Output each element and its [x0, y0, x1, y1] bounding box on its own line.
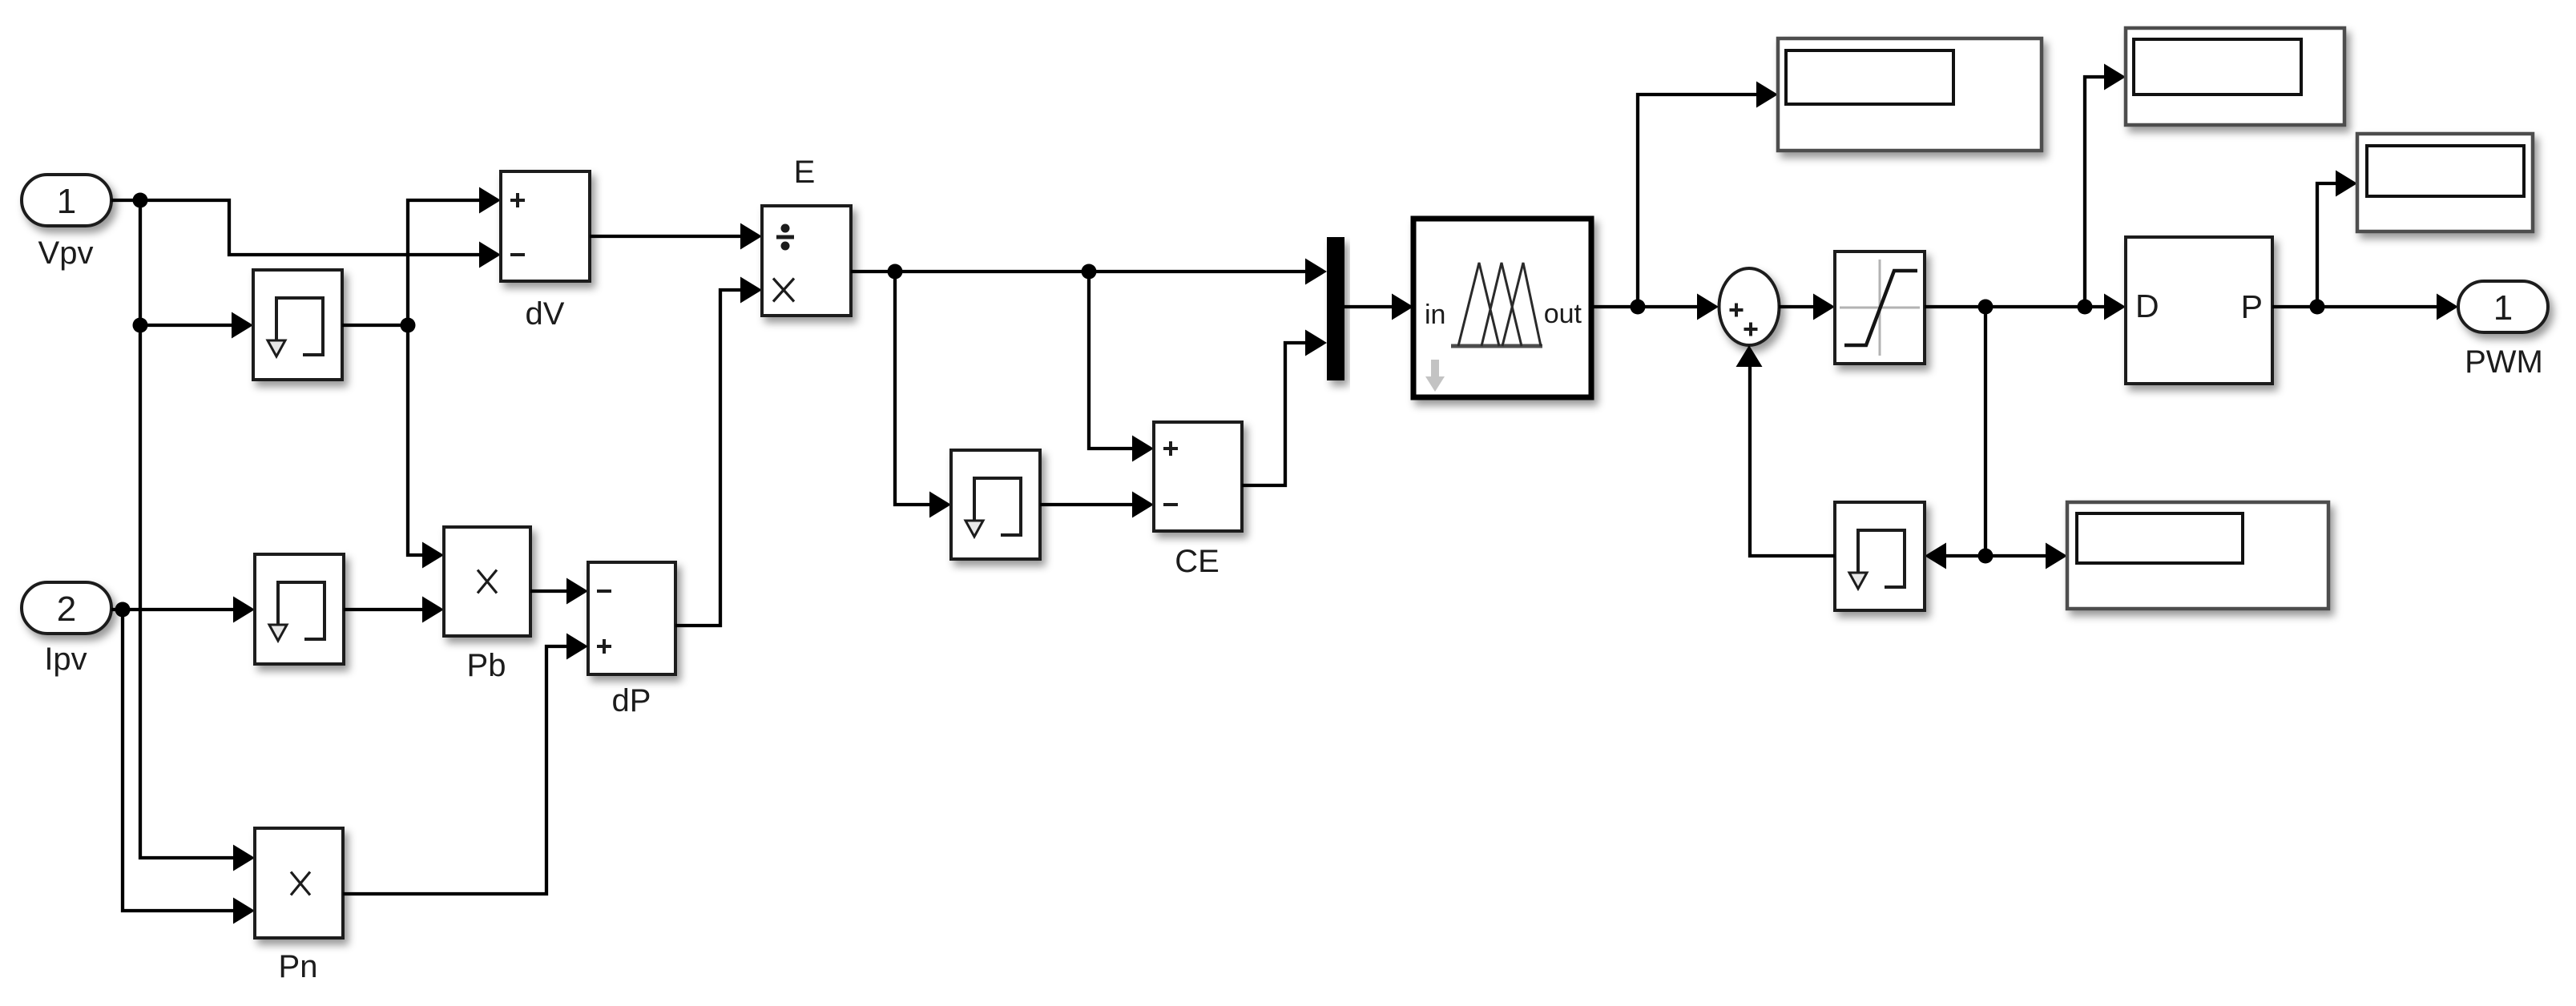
wire: junction G down to feedback row	[1984, 307, 1987, 556]
svg-text:D: D	[2135, 288, 2159, 324]
junction G (duty feedback)	[1978, 300, 1993, 315]
svg-text:Pb: Pb	[467, 648, 506, 683]
label dP	[612, 683, 651, 718]
memory block Memory4 (duty delay)	[1835, 502, 1925, 610]
svg-text:1: 1	[57, 182, 76, 221]
wire: junction C down to Pb input 1	[408, 325, 444, 569]
svg-text:E: E	[794, 155, 816, 190]
junction F (fuzzy output)	[1631, 300, 1646, 315]
svg-text:dV: dV	[526, 296, 565, 332]
junction C (delayed Vpv)	[401, 318, 416, 333]
memory block Memory2 (Ipv delay)	[255, 554, 344, 664]
wire: junction C up to dV plus input	[408, 187, 501, 326]
sum block dP (- +)	[588, 562, 675, 674]
sum block CE (+ -)	[1154, 422, 1242, 531]
wire: Memory2 output to Pb input 2	[344, 597, 444, 623]
inport 1 (Vpv)	[22, 175, 111, 226]
inport 2 (Ipv)	[22, 582, 111, 634]
svg-text:1: 1	[2493, 288, 2513, 328]
junction D on Ipv net	[115, 602, 131, 618]
junction H (feedback row)	[1978, 549, 1993, 564]
product block Pb	[444, 527, 530, 636]
wire: junction F up to Display1	[1638, 82, 1778, 308]
svg-text:CE: CE	[1175, 544, 1219, 579]
memory block Memory3 (E delay)	[951, 450, 1040, 559]
sum block dV (+ -)	[501, 171, 590, 281]
saturation block	[1835, 251, 1925, 364]
outport 1 (PWM)	[2458, 281, 2548, 332]
wire: mux output to fuzzy controller input	[1344, 294, 1413, 320]
wire: feedback to Display4	[1985, 543, 2067, 569]
divide block E	[762, 206, 851, 316]
wire: CE output up to mux input 2	[1242, 330, 1327, 486]
junction A on Vpv net	[133, 193, 148, 208]
svg-text:Ipv: Ipv	[44, 642, 87, 677]
wire: dV output to E dividend input	[590, 223, 762, 250]
wire: saturation output to D input	[1925, 294, 2126, 320]
wire: Ipv vertical down to Pn input 2	[123, 610, 255, 924]
wire: Memory3 output to CE minus input	[1040, 492, 1154, 518]
wire: sum output to saturation input	[1779, 294, 1835, 320]
wire: Vpv vertical trunk down to Pn input 1	[140, 200, 255, 871]
svg-text:Vpv: Vpv	[38, 235, 94, 271]
wire: inport1 to junction A	[111, 199, 141, 202]
display block Display3	[2357, 134, 2533, 231]
svg-text:2: 2	[57, 590, 76, 629]
wire: E output to mux input 1	[851, 259, 1327, 285]
display block Display1	[1778, 38, 2042, 151]
subsystem block D-P (duty to PWM)	[2126, 237, 2272, 384]
label Pb	[467, 648, 506, 683]
memory block Memory1 (Vpv delay)	[253, 270, 342, 380]
wire: fuzzy output to sum junction	[1591, 294, 1719, 320]
wire: inport2 to Memory2 input	[111, 597, 255, 623]
label E	[794, 155, 816, 190]
mux block	[1327, 237, 1344, 380]
junction E1 (error signal)	[888, 264, 903, 280]
wire: Memory1 output to junction C	[342, 324, 408, 327]
wire: Pn output up to dP plus input	[343, 634, 588, 895]
svg-text:P: P	[2241, 288, 2263, 325]
junction J (to Display3)	[2310, 300, 2325, 315]
wire: Pb output to dP minus input	[530, 578, 588, 605]
display block Display4	[2067, 502, 2328, 609]
label PWM	[2465, 344, 2543, 380]
label CE	[1175, 544, 1219, 579]
junction E2 (error to CE plus)	[1082, 264, 1097, 280]
wire: junction E1 down to Memory3 input	[895, 272, 951, 518]
label dV	[526, 296, 565, 332]
label Vpv	[38, 235, 94, 271]
sum circle (+ +)	[1719, 268, 1780, 345]
wire: dP output up to E multiplier input	[675, 277, 762, 626]
fuzzy logic controller block	[1413, 219, 1591, 397]
junction I (to Display2)	[2078, 300, 2093, 315]
wire: Vpv to dV minus input (jog)	[140, 200, 501, 268]
wire: junction I up to Display2	[2085, 64, 2126, 308]
wire: P output to outport PWM	[2272, 294, 2458, 320]
wire: feedback to Memory4 input (leftward)	[1925, 543, 1985, 569]
product block Pn	[255, 828, 343, 938]
svg-text:dP: dP	[612, 683, 651, 718]
svg-text:PWM: PWM	[2465, 344, 2543, 380]
label Ipv	[44, 642, 87, 677]
display block Display2	[2126, 28, 2344, 125]
wire: junction E2 down to CE plus input	[1089, 272, 1154, 462]
label Pn	[279, 949, 318, 984]
svg-text:out: out	[1544, 299, 1582, 329]
wire: junction B to Memory1 input	[140, 312, 253, 339]
svg-text:in: in	[1425, 300, 1445, 330]
wire: junction J up to Display3	[2317, 171, 2357, 308]
wire: Memory4 output up to sum second input	[1736, 345, 1836, 556]
svg-text:Pn: Pn	[279, 949, 318, 984]
junction B (Vpv to Memory1)	[133, 318, 148, 333]
